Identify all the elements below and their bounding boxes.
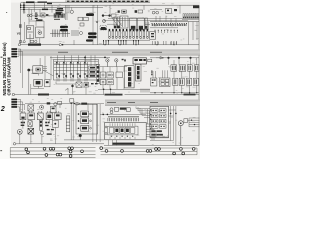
right module row 3 [152,119,167,123]
comb base wire [107,39,150,41]
hatch box r2c [186,78,191,85]
ECM pin comb [108,118,139,121]
right feed wire [150,57,199,59]
tiny glyph column left of r2 [151,71,153,76]
fuse row box 5 [55,113,61,120]
hanging tick heads [103,40,139,41]
control unit box B1 [33,66,43,73]
ignition label block [36,19,43,21]
harness strip left rails [10,148,95,158]
crossed box bottom A [28,105,34,111]
left rail wire [19,3,21,45]
harness wire right [125,94,200,96]
relay stack dots [78,113,80,129]
relay box K2 [36,27,44,38]
junction dots [92,14,98,23]
page background [0,0,200,159]
switch bank outer box [54,60,99,81]
bus line 2 [20,4,199,6]
ECM pin text row [108,115,139,118]
right module glyph row b [151,134,163,136]
hanging ticks mid top band [104,40,177,45]
mid glyph Y [122,59,126,62]
bus label block A [26,1,35,3]
tall connector box [120,16,128,28]
hanging tick cluster B [119,41,127,45]
coil pair C [88,32,97,38]
ECM right wire bundle [146,109,154,134]
tick row 1 right [152,23,187,26]
forest dark caps [101,26,148,30]
strip L splice circles row3 [45,153,72,157]
switch dash row [56,74,86,75]
cell box r2 [160,78,170,87]
relay dark box [56,13,62,16]
wire from dot down [29,70,33,95]
text glyphs 49 [21,122,25,126]
side box left bottom [51,106,57,112]
dark module tall B [136,64,142,81]
dark capsule [86,13,94,16]
relay stack side rings [90,113,92,129]
bus label small [42,9,48,11]
dark dash above relay [57,8,63,9]
hatch box r1d [194,65,199,71]
ECM inner tick row [110,123,135,126]
right bus junction dots [154,92,197,93]
hanging tick cluster D [156,42,177,45]
right rail wire [198,5,200,145]
cell box row C [116,72,122,78]
fuse row box 4 [46,113,52,120]
wire top-left joins [29,8,56,25]
bottom margin strip [11,146,200,159]
box on lower row [86,39,93,41]
small box right of motor [184,119,188,123]
long verticals mid-bottom [71,104,100,142]
partial line right [150,27,178,29]
extra nest wires [146,110,189,140]
band2 top feed wire [50,57,110,62]
switch column 3 [70,62,74,78]
relay small box [41,13,45,17]
battery bus line 1 [21,1,150,3]
top-right pin comb [183,14,199,18]
hanging tick cluster C [134,41,139,45]
sensor ring [103,20,106,23]
relay box K1 [26,26,34,39]
right bottom bus [150,85,199,92]
small box above ECM [115,107,119,111]
junction dot below bank [71,85,73,87]
mid sensor ring B [115,59,118,67]
small hatch group with ring [72,30,83,36]
fuse label dash column [35,13,38,19]
switch column 4 [77,62,81,78]
junction pin bar row [54,13,65,17]
ECM cell dots [111,136,133,137]
switch column 5 [84,62,88,78]
lower glyph row of top band [19,40,37,43]
fuse row box 2 [28,113,35,120]
mesh wires upper right [104,5,199,30]
thin element forest [112,17,147,29]
distribution box dark [133,58,147,64]
junction text rows [56,10,64,13]
relay stack box 3 [81,125,89,131]
tick row2 heads [155,30,178,31]
switch column feet [57,77,87,82]
small box below bank [84,82,89,87]
right module row 4 [152,125,167,129]
band2 text dashes [107,102,158,103]
feed junction dots [84,57,106,59]
hatch group B [50,30,70,38]
dark mark right [174,9,177,11]
comb base line right [182,18,199,20]
diagonal feed wire [43,70,54,76]
connector pin comb row [109,31,149,37]
harness label mid [105,94,123,96]
small box pair [78,17,88,21]
right module bottom rail [150,136,169,138]
switch top dots [56,62,85,63]
harness label right [184,94,196,96]
relay stack box 2 [81,118,89,124]
right inter-row wires [153,70,197,78]
wires below relays [24,22,40,45]
connector tick pair [19,25,22,28]
ECM cell 1 [109,128,113,134]
ECM label text [113,143,135,145]
comb pin feet circles [109,37,149,39]
small mark right of dist box [148,59,152,62]
scan text noise [20,3,199,145]
switch column 2 [63,62,67,78]
wires below DL [31,84,44,95]
ECM feed wire [100,113,146,115]
mid horizontal wire [100,67,127,72]
open terminal circle [18,44,20,46]
bus end terminals [20,5,21,8]
small comb by module [141,89,149,93]
tick row heads [152,23,187,24]
dark dash mark [81,103,87,105]
switch bank inner rails [54,61,98,70]
hatch box r2a [173,78,178,85]
ECM bottom inner ticks [110,137,135,139]
fuse row box 1 [20,113,26,120]
hanging tick cluster A [104,41,109,45]
bus end label [47,3,52,4]
lower right link wire [150,140,173,142]
cell box row B [107,72,113,78]
main bottom wire [16,143,104,145]
right feed dots [167,57,191,59]
dashed connector box [100,26,107,30]
stacked cell dark fills [90,67,95,77]
strip R splice circles [100,147,195,155]
hatch box r2d [193,78,198,85]
small box r2 left [151,78,157,86]
ECM inner frame [108,126,139,135]
hatch box r1c [188,65,193,71]
relay stack outer box [76,105,98,135]
right module edge ticks [150,109,151,129]
VS label [17,31,21,35]
bus line 3 [20,6,103,8]
dark module tall A [124,66,134,88]
long bus right [150,21,199,23]
hatch box r2b [179,78,184,85]
box B1 stubs [32,58,48,76]
GL glyphs [45,122,49,127]
bottom bus right half [104,144,199,146]
band1 bottom wire [21,44,200,46]
side box next to DL [45,80,50,87]
ECM left rings [105,126,107,135]
stacked cell dots [90,67,95,77]
relay feed wires [29,10,162,27]
svg-text:VS: VS [17,31,21,35]
ECM cell 4 [125,128,129,134]
cell box row2 B [107,79,113,84]
hatch box r1b [179,65,186,72]
interconnect wires bottom-left [20,120,58,144]
sensor ring bottom B [54,103,57,106]
ground dot [79,134,82,137]
mid bottom drops [65,88,111,95]
relay stack box 1 [81,111,89,117]
wires from left bars [17,49,23,88]
diamond mark [74,102,80,105]
bus junction dots [23,4,25,10]
thermo component [40,120,43,130]
bottom-mid bus [64,136,104,140]
strip L splice circles row1 [25,147,73,151]
bus line 4 [20,8,60,10]
ignition rings [27,14,32,16]
vertical junction dots [170,113,177,115]
fuse row box 3 [37,113,43,120]
dark dashes above ECM [120,108,127,110]
mid sensor ring A [106,59,109,67]
wires from lower bars [17,99,25,113]
box with dot [53,120,59,127]
ECM cell 3 [120,128,124,134]
title text vertical: NISSAN 300ZX(Z32 Series) [2,42,7,96]
right wire nest [189,118,200,127]
right small box [150,32,156,40]
switch column 1 [56,62,60,78]
glyph cluster c1 [118,10,127,13]
ECM under-box drops [109,140,117,146]
circle on lower row [59,44,61,46]
dark crossed box [28,128,34,134]
bottom terminal circle [13,143,15,145]
strip L splice circles row2 [27,150,84,154]
hatch box r1a [171,65,177,72]
ECM cell 2 [115,128,119,134]
relay circles right [152,11,158,14]
bus label block B [38,2,48,3]
harness strip right rails [101,148,198,155]
junction dots lower row [104,44,174,45]
dash glyphs bottom-left [47,129,54,135]
title text vertical: CIRCUIT DIAGRAM [7,57,12,96]
page number glyph 2 [0,106,5,113]
module box with dark window A [130,18,137,30]
crossed box below bank [76,82,82,87]
link wire below bank [56,82,86,95]
main harness wire [15,94,104,96]
ECM cell 5 [131,128,135,134]
junction dash row [54,19,60,20]
crossed box bottom B [28,121,32,127]
stacked cells right of switches [89,66,96,78]
dark glyph bottom [47,102,51,104]
motor ring bottom-left [17,129,22,134]
fusible link ticks [24,2,25,13]
cell box row A [100,72,106,78]
terminal dot pair with link [102,14,111,16]
relay box DL [34,79,42,86]
tick row 2 right [155,30,177,33]
gray separator band 2 [105,100,200,106]
right module glyph row a [151,130,162,132]
right vertical wires [180,5,197,45]
ECM feed dots [102,114,108,116]
small box above ECM b [126,108,130,112]
right edge dark block [193,6,199,9]
bottom band top wire [25,103,104,110]
ladder box [66,116,70,132]
motor ring right [178,121,183,146]
junction dot mid-left [27,69,30,72]
small ring bottom [40,131,43,134]
right verticals band2 [169,58,197,65]
wire junction dots bottom top row [71,103,75,104]
horn circle [70,10,73,13]
right module row 2 [152,114,167,118]
small box bottom [58,101,62,104]
coil pair B [60,26,68,32]
junction dot at circle [62,44,64,46]
right module row 1 [152,109,167,113]
module box with dark window B [138,18,145,30]
top margin [11,0,65,3]
harness label left [38,94,49,96]
scan area wash [11,2,200,146]
extra top-left marks [34,2,52,12]
ECM routing wires [136,107,150,118]
band1 text dashes [58,52,162,53]
connector bar labels left (upper set) [11,48,17,57]
tick row dark dashes [152,24,186,25]
main harness terminal [12,93,14,95]
switch feed drops [45,55,95,80]
relay outline box right [166,8,172,13]
narrow cell column [96,65,100,84]
hatch group A [52,30,59,38]
mid bottom bus [98,88,150,90]
small box above stack [70,99,74,103]
glyph cluster c2 [135,10,143,13]
fuse row terminals [22,111,59,113]
mid vline extensions [103,78,124,90]
svg-text:CIRCUIT DIAGRAM: CIRCUIT DIAGRAM [7,57,12,96]
right module box [150,106,169,138]
connector bar labels left (lower set) [11,99,17,108]
scan specks [0,12,7,151]
svg-text:2: 2 [0,106,5,113]
verticals right of module [171,106,176,145]
vertical wires mid top [65,5,98,45]
stacked rings above ECM [110,108,113,114]
header text strip [65,0,150,2]
small box single [80,23,84,26]
gray separator band 1 [18,50,200,56]
cell box row2 A [100,79,106,84]
dark mark right of relay [46,14,48,16]
left margin [0,0,11,159]
ECM box [105,122,147,139]
glyph below bank [91,83,98,84]
mid bottom junctions [103,89,112,91]
sensor ring bottom A [40,105,44,109]
arrow glyph [156,57,164,59]
nest junction dots [191,120,195,126]
comb pin heads [109,29,148,31]
small box at link [112,14,116,17]
wire label block [28,44,41,46]
top-right comb dots [183,17,199,18]
